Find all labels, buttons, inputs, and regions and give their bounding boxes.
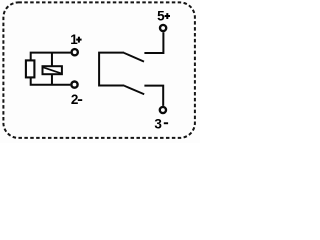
svg-text:5: 5 bbox=[157, 9, 165, 24]
svg-text:2: 2 bbox=[71, 92, 79, 107]
svg-text:3: 3 bbox=[154, 116, 162, 131]
